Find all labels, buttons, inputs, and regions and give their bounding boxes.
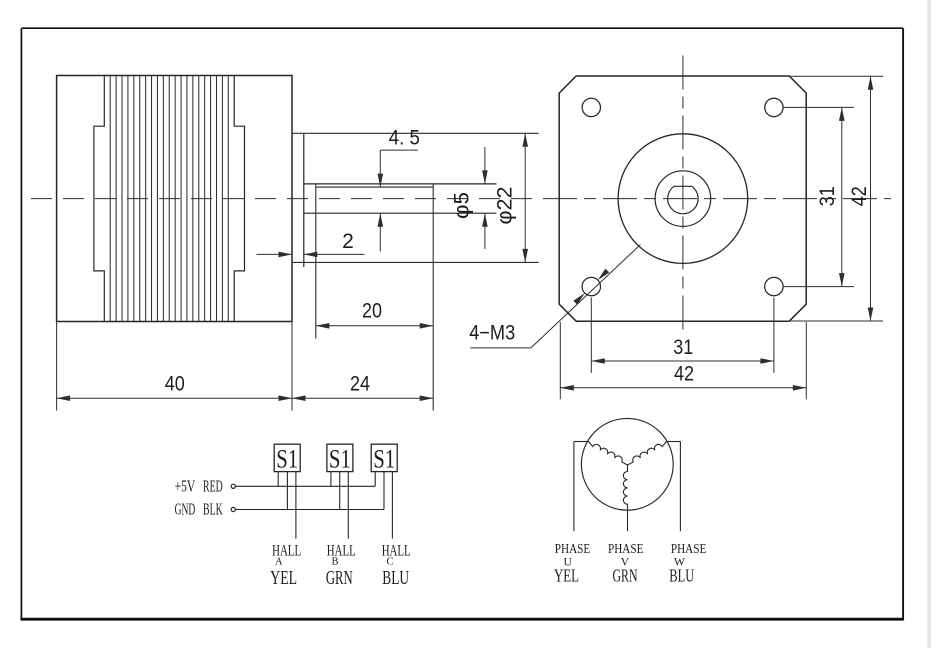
svg-text:31: 31 — [673, 336, 693, 359]
hall sensor S1 (A) +5V leg wire — [277, 472, 279, 487]
phase U lead wire — [574, 441, 589, 443]
svg-text:A: A — [275, 556, 283, 567]
mounting hole M3 top-right — [765, 98, 783, 116]
shaft end vertical + 20/24-dim extension — [432, 184, 434, 410]
lamination stack fins (vertical lines) — [109, 76, 111, 322]
front pilot boss right face — [303, 133, 305, 267]
bottom dimension 42 arrows — [560, 385, 574, 391]
svg-text:PHASE: PHASE — [671, 541, 706, 556]
lamination stack right profile with notch — [234, 76, 244, 322]
dimension 2 lines — [257, 253, 293, 255]
svg-text:φ22: φ22 — [493, 187, 516, 225]
front pilot boss φ22 bottom line + extension — [292, 261, 539, 263]
right dimension 42 line — [870, 76, 872, 321]
svg-text:GRN: GRN — [613, 566, 638, 586]
+5V rail wire — [235, 485, 375, 487]
dimension 20 line — [316, 325, 433, 327]
front view vertical centerline — [682, 56, 684, 331]
bottom 42 extension lines — [559, 322, 561, 399]
hall sensor S1 (C) +5V leg wire — [374, 472, 376, 487]
dimension 4.5 leader — [380, 149, 418, 151]
svg-text:BLU: BLU — [382, 568, 409, 589]
svg-text:PHASE: PHASE — [608, 541, 643, 556]
svg-text:YEL: YEL — [270, 568, 297, 589]
hall sensor S1 (C) output leg wire — [391, 472, 393, 539]
svg-text:24: 24 — [350, 372, 370, 395]
svg-text:BLK: BLK — [203, 500, 223, 519]
hall sensor S1 (A) output leg wire — [295, 472, 297, 539]
svg-text:42: 42 — [674, 363, 694, 386]
mounting hole M3 bottom-right — [765, 277, 783, 295]
hall sensor S1 (B) GND leg wire — [339, 472, 341, 510]
svg-text:31: 31 — [816, 186, 839, 206]
shaft flat edge line — [316, 186, 433, 188]
label 4-M3 leader line — [470, 347, 531, 349]
page right edge shading — [927, 0, 931, 648]
phase W lead wire — [667, 441, 681, 443]
svg-text:S1: S1 — [276, 445, 298, 474]
mounting hole M3 bottom-left — [582, 277, 600, 295]
shaft top line + φ5 extension — [304, 183, 497, 185]
svg-text:S1: S1 — [329, 445, 351, 474]
svg-text:S1: S1 — [373, 445, 395, 474]
dimension φ22 arrows — [522, 133, 528, 147]
front pilot boss φ22 top line + extension — [292, 132, 539, 134]
svg-text:+5V: +5V — [175, 477, 196, 496]
hall sensor S1 (A) box — [274, 444, 300, 471]
bottom dimension 31 line — [591, 360, 774, 362]
right dimension 31 line — [841, 107, 843, 286]
side view horizontal centerline — [31, 198, 541, 200]
svg-text:φ5: φ5 — [451, 192, 474, 219]
svg-text:RED: RED — [203, 477, 223, 496]
hall sensor S1 (C) box — [371, 444, 397, 471]
hub circle (front view) — [655, 171, 711, 227]
phase winding coil U (upper-left) — [589, 442, 628, 466]
motor body outline (side view) — [57, 76, 292, 322]
svg-text:GND: GND — [175, 500, 196, 519]
motor face extension line for 24/40 — [291, 322, 293, 411]
hall sensor S1 (C) GND leg wire — [383, 472, 385, 510]
border frame — [21, 27, 903, 29]
hall sensor S1 (A) GND leg wire — [286, 472, 288, 510]
lamination stack left profile with notch — [94, 76, 104, 322]
svg-text:PHASE: PHASE — [555, 541, 590, 556]
dimension 4.5 arrows — [378, 174, 384, 188]
svg-text:4. 5: 4. 5 — [389, 126, 420, 149]
mounting hole M3 top-left — [582, 98, 600, 116]
svg-text:42: 42 — [848, 186, 871, 206]
label 4-M3 leader arrows — [573, 293, 585, 305]
dimension 20 arrows — [316, 323, 330, 329]
dimension 40 extension line — [56, 322, 58, 411]
bottom dimension 31 arrows — [591, 358, 605, 364]
dimension φ5 line — [484, 147, 486, 184]
svg-text:GRN: GRN — [326, 568, 353, 589]
hall sensor S1 (B) box — [327, 444, 353, 471]
right 42 extension lines — [789, 75, 883, 77]
GND rail wire — [235, 509, 384, 511]
svg-text:B: B — [331, 556, 338, 567]
+5V terminal — [231, 484, 235, 488]
dimension 40 arrows — [57, 395, 71, 401]
phase winding coil V (down) — [623, 465, 627, 510]
svg-text:C: C — [386, 556, 393, 567]
dimension φ22 line — [524, 133, 526, 262]
hall sensor S1 (B) output leg wire — [347, 472, 349, 539]
right 31 extension lines — [784, 106, 855, 108]
stator circle — [581, 418, 673, 510]
dimension 24 line — [292, 397, 433, 399]
shaft flat start vertical + 20-dim extension — [315, 184, 317, 339]
phase winding coil W (upper-right) — [628, 442, 667, 466]
dimension 40 line — [57, 397, 292, 399]
svg-text:40: 40 — [165, 372, 185, 395]
svg-text:YEL: YEL — [554, 566, 579, 586]
svg-text:4−M3: 4−M3 — [469, 322, 515, 345]
dimension 24 arrows — [292, 395, 306, 401]
front face square outline with chamfered corners — [559, 76, 806, 321]
bottom 31 extension lines — [590, 298, 592, 373]
right dimension 42 arrows — [868, 76, 874, 90]
svg-text:2: 2 — [342, 230, 354, 253]
svg-text:20: 20 — [362, 300, 382, 323]
dimension φ5 arrows — [482, 170, 488, 184]
bottom dimension 42 line — [560, 387, 806, 389]
shaft bottom line + φ5 extension — [304, 212, 497, 214]
hall sensor S1 (B) +5V leg wire — [330, 472, 332, 487]
shaft circle φ5 with flat (front view) — [668, 186, 698, 214]
pilot boss circle φ22 (front view) — [618, 134, 748, 264]
right dimension 31 arrows — [839, 107, 845, 121]
dimension 2 arrows — [279, 252, 293, 258]
svg-text:BLU: BLU — [669, 566, 694, 586]
front view horizontal centerline — [543, 198, 891, 200]
GND terminal — [231, 507, 235, 511]
phase V lead wire — [627, 510, 629, 531]
